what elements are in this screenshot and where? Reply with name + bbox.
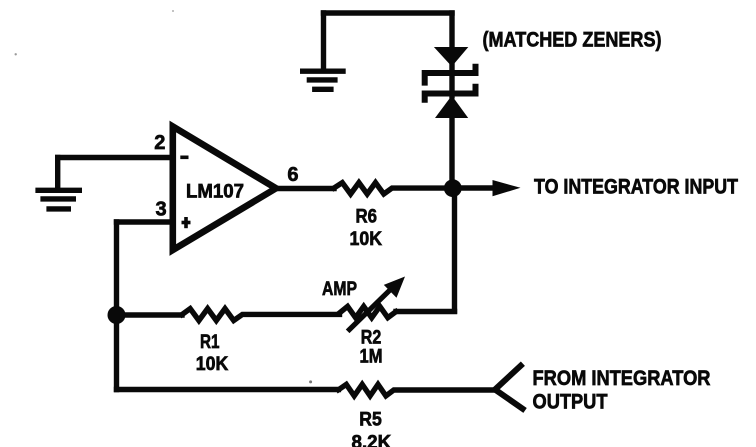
svg-text:10K: 10K [350, 228, 383, 250]
svg-text:R1: R1 [200, 331, 220, 353]
svg-text:8.2K: 8.2K [352, 432, 392, 447]
svg-text:1M: 1M [360, 345, 383, 367]
svg-text:LM107: LM107 [186, 181, 244, 203]
svg-text:R6: R6 [356, 206, 378, 228]
svg-text:10K: 10K [196, 353, 229, 375]
svg-text:2: 2 [154, 132, 165, 154]
svg-text:OUTPUT: OUTPUT [533, 391, 608, 414]
svg-text:(MATCHED ZENERS): (MATCHED ZENERS) [483, 29, 662, 52]
svg-text:R5: R5 [359, 409, 382, 431]
svg-text:AMP: AMP [322, 278, 357, 300]
svg-text:6: 6 [287, 164, 298, 186]
svg-text:FROM INTEGRATOR: FROM INTEGRATOR [533, 367, 711, 390]
svg-text:3: 3 [156, 199, 167, 221]
svg-text:TO INTEGRATOR INPUT: TO INTEGRATOR INPUT [534, 176, 738, 199]
